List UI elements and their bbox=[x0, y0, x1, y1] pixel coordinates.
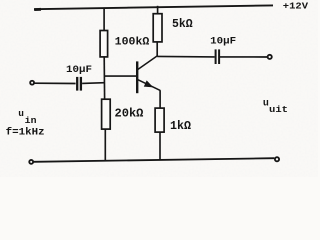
wire top supply rail bbox=[34, 5, 273, 9]
wire C1 to base node column bbox=[82, 82, 105, 85]
svg-text:10µF: 10µF bbox=[210, 36, 236, 48]
wire R3 top lead bbox=[157, 6, 159, 14]
svg-text:f=1kHz: f=1kHz bbox=[6, 127, 45, 139]
resistor R4 1k body bbox=[155, 108, 164, 132]
terminal output (open circle) bbox=[268, 55, 272, 59]
svg-text:u: u bbox=[18, 108, 24, 119]
wire output capacitor to output terminal bbox=[220, 56, 267, 58]
terminal bottom-left (open circle) bbox=[29, 160, 33, 164]
wire R2 bottom lead bbox=[104, 129, 106, 160]
resistor R2 20k body bbox=[102, 99, 111, 129]
svg-text:u: u bbox=[263, 98, 269, 109]
svg-text:20kΩ: 20kΩ bbox=[115, 108, 144, 121]
svg-text:1kΩ: 1kΩ bbox=[170, 120, 191, 133]
wire emitter vertical to R4 bbox=[159, 90, 161, 108]
wire R1 top lead bbox=[103, 8, 105, 31]
svg-text:+12V: +12V bbox=[283, 0, 309, 11]
svg-text:uit: uit bbox=[269, 104, 288, 115]
wire input terminal to capacitor C1 bbox=[34, 82, 75, 84]
capacitor C1 10uF plates bbox=[77, 77, 81, 91]
terminal input (open circle) bbox=[30, 81, 34, 85]
wire bottom ground rail bbox=[33, 158, 274, 162]
wire base node column (R1 bottom to R2 top) bbox=[103, 57, 105, 99]
transistor Q1 bbox=[137, 56, 160, 93]
resistor R1 100k body bbox=[100, 31, 108, 57]
wire collector node to output capacitor bbox=[157, 55, 214, 58]
wire base lead bbox=[105, 75, 137, 77]
svg-text:5kΩ: 5kΩ bbox=[172, 18, 193, 31]
capacitor C2 10uF plates bbox=[216, 49, 220, 64]
wire R4 bottom lead bbox=[159, 132, 161, 159]
terminal bottom-right (open circle) bbox=[275, 157, 279, 161]
resistor R3 5k body bbox=[153, 14, 162, 42]
wire R3 bottom lead to collector corner bbox=[156, 42, 158, 57]
svg-text:10µF: 10µF bbox=[66, 64, 92, 76]
svg-text:in: in bbox=[25, 116, 37, 126]
svg-text:100kΩ: 100kΩ bbox=[115, 36, 150, 48]
